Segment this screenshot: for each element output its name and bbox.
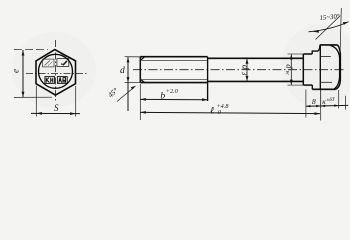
chamfer angle construction line — [316, 16, 341, 40]
head left face line — [319, 45, 321, 89]
scan smudge over left view — [12, 32, 96, 108]
head top corner chamfer — [338, 45, 341, 54]
svg-text:+2.0: +2.0 — [166, 88, 179, 95]
d3 shank diameter dimension with arrows — [246, 58, 249, 81]
extension line from head inner face — [320, 90, 322, 109]
L right extension line — [320, 90, 322, 121]
svg-text:3: 3 — [240, 71, 248, 76]
d dimension extension tick top — [125, 56, 141, 58]
tip extension line for b and L — [139, 84, 141, 120]
S dimension extension line left — [35, 86, 37, 117]
washer face bottom edge — [303, 84, 312, 86]
threaded shaft bottom edge — [140, 82, 207, 84]
label dw rotated — [284, 64, 295, 74]
e dimension extension line top — [14, 49, 48, 51]
dw dimension line with arrows — [290, 54, 293, 85]
svg-text:S: S — [54, 103, 59, 113]
svg-text:±δТ: ±δТ — [327, 97, 336, 103]
svg-text:ℓ: ℓ — [210, 106, 214, 117]
bolt axis centerline — [133, 69, 346, 71]
label d3 rotated — [240, 65, 251, 76]
marking box top-right — [57, 59, 69, 67]
svg-text:d: d — [285, 64, 295, 69]
L dimension line with arrows — [140, 111, 320, 115]
dimension line for в and к — [306, 104, 348, 107]
head right face — [339, 53, 341, 81]
chamfer 45 deg leader — [106, 86, 135, 102]
head face boundary line bottom — [321, 81, 332, 83]
scan smudge over head area — [282, 24, 350, 108]
tip chamfer top — [140, 57, 145, 61]
shank bottom edge — [208, 80, 304, 82]
paper background — [0, 0, 350, 136]
svg-text:8: 8 — [312, 97, 316, 106]
threaded shaft top edge — [140, 56, 207, 58]
bolt tip end line — [139, 57, 141, 83]
dw dimension extension tick top — [288, 53, 304, 55]
head shoulder step top — [312, 45, 320, 54]
head bottom corner chamfer — [336, 81, 341, 89]
head top edge — [320, 44, 338, 46]
vertical centerline of head view — [55, 40, 57, 101]
thread end boundary line — [207, 57, 209, 101]
dw dimension extension tick bottom — [288, 84, 304, 86]
head shoulder step bottom — [311, 85, 313, 89]
tip chamfer bottom — [140, 79, 145, 82]
shank top edge — [208, 57, 304, 59]
bearing face line — [302, 54, 304, 85]
e dimension extension line bottom — [14, 96, 52, 98]
head face boundary line top — [321, 55, 331, 57]
marking box top-left — [43, 59, 55, 67]
thread minor line top — [142, 59, 208, 61]
svg-text:b: b — [160, 91, 165, 101]
S dimension extension line right — [75, 86, 77, 117]
marking box bottom-left — [45, 77, 55, 84]
d dimension extension tick bottom — [125, 82, 141, 84]
d dimension line with arrows — [127, 57, 130, 111]
b dimension line with arrows — [140, 98, 207, 101]
head bottom edge — [312, 88, 335, 90]
thread minor line bottom — [142, 79, 208, 81]
marking box bottom-right — [57, 77, 67, 84]
svg-text:d: d — [241, 65, 251, 70]
hexagon head outline — [36, 50, 76, 96]
washer face top edge — [303, 53, 312, 55]
head chamfer arc on middle face — [330, 45, 339, 88]
horizontal centerline of head view — [26, 72, 87, 74]
svg-text:w: w — [284, 71, 290, 75]
S dimension line with arrows — [31, 112, 80, 115]
chamfer circle on head face — [39, 54, 73, 88]
extension line from bearing face — [305, 90, 307, 118]
extension line from head right face — [338, 90, 340, 109]
e dimension line with arrows — [22, 50, 25, 97]
extension line far right — [344, 96, 346, 110]
svg-text:e: e — [11, 69, 21, 73]
right face extension line up — [340, 8, 341, 50]
angle dimension arc with arrows — [309, 22, 349, 33]
svg-text:d: d — [120, 66, 125, 76]
